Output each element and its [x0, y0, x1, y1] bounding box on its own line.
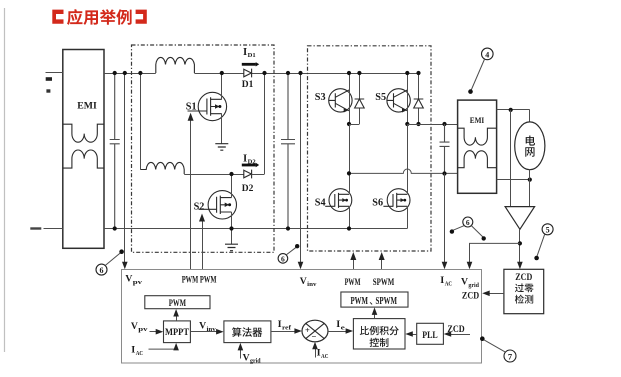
- label Vgrid top: [461, 276, 480, 288]
- transistor S5: [387, 71, 410, 126]
- callout 7 circle: [480, 336, 516, 362]
- svg-text:pv: pv: [138, 326, 149, 333]
- wire PWM drive arrow: [350, 252, 356, 269]
- svg-text:AC: AC: [321, 353, 328, 360]
- wire bottom rail: [104, 228, 407, 230]
- wire PLL to PI: [405, 331, 416, 337]
- boost stage dashed box: [132, 45, 275, 252]
- label Vgrid into algorithm: [243, 352, 262, 364]
- svg-text:SPWM: SPWM: [373, 278, 395, 288]
- wire L2 to D2: [184, 174, 244, 176]
- label ZCD near PLL: [447, 325, 464, 335]
- svg-text:D1: D1: [248, 52, 256, 59]
- svg-text:PWM PWM: PWM PWM: [182, 275, 217, 285]
- wire EMI out bottom to grid: [497, 178, 532, 182]
- wire phase B output: [407, 122, 457, 126]
- label SPWM drive: [373, 278, 395, 288]
- label S1: [186, 102, 197, 113]
- svg-text:PWM: PWM: [169, 298, 186, 309]
- svg-text:PWM: PWM: [351, 296, 369, 307]
- label Vpv top: [125, 274, 143, 286]
- wire PWM gate S1 arrow: [188, 113, 194, 269]
- capacitor C1 (input): [110, 71, 120, 231]
- current label ID2: [242, 153, 259, 167]
- ground below S1: [215, 144, 228, 151]
- ZCD block text: [515, 273, 534, 303]
- label S2: [194, 201, 205, 212]
- ZCD zero-cross block: [504, 269, 544, 313]
- svg-text:V: V: [461, 276, 468, 287]
- grid source 电网: [515, 122, 545, 170]
- arrowhead IAC down: [442, 262, 448, 270]
- PWM SPWM block: [341, 292, 408, 307]
- svg-text:6: 6: [466, 218, 470, 227]
- multiplier junction: [302, 320, 328, 342]
- callout 6 circle left: [96, 249, 124, 275]
- wire PWM gate S2 arrow: [199, 214, 205, 270]
- inductor L2: [140, 162, 184, 174]
- callout 6 circle middle: [278, 244, 299, 264]
- title text 应用举例: [67, 9, 132, 25]
- wire PV+ input stub: [46, 72, 63, 74]
- wire top rail (after L1 to D1): [194, 73, 243, 75]
- transistor S3: [329, 71, 352, 126]
- svg-text:PWM: PWM: [345, 278, 361, 288]
- wire branch2 drop: [138, 71, 142, 170]
- wire Vpv to MPPT: [150, 329, 164, 335]
- wire ZCD to controller: [482, 291, 504, 297]
- wire Vgrid to algorithm: [238, 343, 244, 359]
- label Vinv top: [300, 276, 318, 288]
- capacitor C2 (DC link): [281, 71, 295, 231]
- svg-text:AC: AC: [136, 350, 143, 357]
- inverter stage dashed box: [308, 46, 432, 251]
- wire multiplier to PI: [328, 328, 353, 334]
- label D1: [242, 80, 254, 90]
- svg-text:SPWM: SPWM: [376, 296, 398, 307]
- PV+ terminal mark: [46, 77, 52, 81]
- svg-text:e: e: [341, 325, 346, 332]
- svg-text:S1: S1: [186, 102, 197, 113]
- svg-text:MPPT: MPPT: [165, 327, 189, 337]
- svg-text:ZCD: ZCD: [462, 291, 479, 301]
- title bracket right: [136, 10, 147, 24]
- svg-text:6: 6: [281, 255, 285, 264]
- label Vpv into MPPT: [131, 321, 149, 333]
- svg-text:AC: AC: [445, 281, 452, 288]
- wire IAC to multiplier: [312, 342, 318, 358]
- transistor S6: [383, 124, 410, 229]
- wire top rail (EMI to boost): [104, 73, 156, 75]
- svg-text:EMI: EMI: [470, 116, 485, 125]
- EMI label (input): [77, 101, 97, 112]
- PI control block 比例积分控制: [353, 319, 405, 349]
- arrowhead Vgrid down: [467, 262, 473, 270]
- svg-text:S5: S5: [375, 92, 386, 103]
- inductor L1: [156, 57, 195, 73]
- EMI filter block (input): [63, 50, 104, 249]
- label Iref: [278, 319, 293, 331]
- wire D2 out: [252, 174, 265, 176]
- label IAC into multiplier: [317, 348, 329, 360]
- PLL block: [417, 323, 444, 344]
- wire grid bottom drop: [529, 170, 531, 207]
- transistor S1: [188, 71, 227, 144]
- label S4: [315, 198, 326, 209]
- svg-text:inv: inv: [207, 326, 217, 333]
- algorithm block 算法器: [224, 321, 271, 343]
- op-amp comparator triangle: [505, 207, 534, 230]
- wire algorithm to multiplier: [271, 328, 302, 334]
- label IAC into MPPT: [131, 345, 143, 357]
- diode D3 (S3 freewheel): [355, 71, 365, 124]
- svg-text:4: 4: [485, 50, 489, 59]
- wire phase A output with crossover: [347, 169, 458, 176]
- arrowhead into ZCD: [517, 262, 523, 270]
- label ZCD in: [462, 291, 479, 301]
- EMI label (output): [470, 116, 485, 125]
- svg-text:grid: grid: [468, 282, 479, 289]
- wire top rail (D1 cathode to bridge): [252, 73, 419, 75]
- diode D2: [244, 170, 252, 179]
- label Ie: [336, 319, 345, 331]
- wire IAC to MPPT: [149, 343, 179, 351]
- svg-text:D1: D1: [242, 80, 254, 90]
- label PWM PWM gate: [182, 275, 217, 285]
- svg-text:ZCD: ZCD: [447, 325, 464, 335]
- label Vinv mid: [199, 321, 217, 333]
- wire sense drop to comparator: [510, 110, 512, 207]
- svg-text:V: V: [125, 274, 132, 285]
- transistor S4: [325, 124, 352, 231]
- svg-text:+: +: [305, 325, 310, 335]
- wire S3 leg junction: [349, 124, 359, 126]
- ground below S2: [225, 244, 238, 251]
- svg-text:S2: S2: [194, 201, 205, 212]
- wire Vinv sense: [298, 71, 302, 263]
- svg-text:V: V: [199, 321, 206, 332]
- wire D1-D2 link: [262, 71, 266, 174]
- svg-text:V: V: [300, 276, 307, 287]
- transistor S2: [199, 172, 237, 244]
- svg-text:grid: grid: [250, 358, 261, 365]
- wire ZCD to PLL: [444, 331, 470, 337]
- label S6: [372, 198, 383, 209]
- PV- terminal mark: [46, 89, 50, 92]
- wire PV- input stub: [44, 228, 63, 230]
- label S5: [375, 92, 386, 103]
- PV- stub mark: [30, 227, 41, 229]
- arrowhead Vinv down: [298, 262, 304, 270]
- title bracket left: [52, 10, 63, 24]
- EMI filter block (output): [458, 100, 497, 193]
- callout 5 circle: [534, 224, 553, 260]
- wire comparator output: [518, 229, 522, 263]
- wire Vpv sense: [123, 71, 127, 263]
- svg-text:6: 6: [100, 266, 104, 275]
- diode D1: [244, 69, 252, 78]
- diode D5 (S5 freewheel): [414, 71, 424, 126]
- callout 6 circle right: [450, 217, 486, 241]
- capacitor C3 (AC filter): [440, 124, 450, 176]
- label PWM drive: [345, 278, 361, 288]
- arrowhead Vpv down: [122, 262, 128, 270]
- svg-text:ref: ref: [282, 325, 292, 332]
- label IAC top: [440, 275, 452, 287]
- svg-text:S4: S4: [315, 198, 326, 209]
- wire SPWM drive arrow: [379, 252, 385, 269]
- label D2: [242, 184, 254, 194]
- wire IAC sense: [444, 174, 446, 263]
- callout 4 circle: [468, 48, 493, 94]
- svg-text:V: V: [131, 321, 138, 332]
- svg-text:D2: D2: [242, 184, 254, 194]
- svg-text:EMI: EMI: [77, 101, 97, 112]
- svg-text:5: 5: [546, 226, 550, 235]
- PWM block: [145, 296, 210, 309]
- EMI winding bottom (output): [458, 151, 497, 168]
- svg-text:−: −: [312, 331, 317, 341]
- EMI winding bottom (input): [63, 150, 104, 168]
- EMI winding top (input): [63, 124, 104, 142]
- label S3: [315, 92, 326, 103]
- wire Vgrid sense route: [470, 243, 520, 262]
- svg-text:ZCD: ZCD: [515, 273, 532, 283]
- svg-text:S3: S3: [315, 92, 326, 103]
- page left border: [4, 8, 6, 352]
- svg-text:7: 7: [508, 352, 513, 362]
- controller box: [122, 270, 482, 364]
- svg-text:pv: pv: [133, 279, 144, 286]
- svg-text:PLL: PLL: [422, 330, 438, 341]
- wire PI to PWM SPWM block: [372, 307, 378, 318]
- wire EMI out top to grid: [497, 108, 530, 122]
- svg-text:inv: inv: [307, 281, 317, 288]
- svg-text:V: V: [243, 352, 250, 363]
- MPPT block: [164, 321, 191, 343]
- wire MPPT to PWM block: [173, 309, 179, 321]
- EMI winding top (output): [458, 128, 497, 145]
- current label ID1: [242, 47, 259, 67]
- svg-text:S6: S6: [372, 198, 383, 209]
- wire MPPT to algorithm: [190, 329, 223, 335]
